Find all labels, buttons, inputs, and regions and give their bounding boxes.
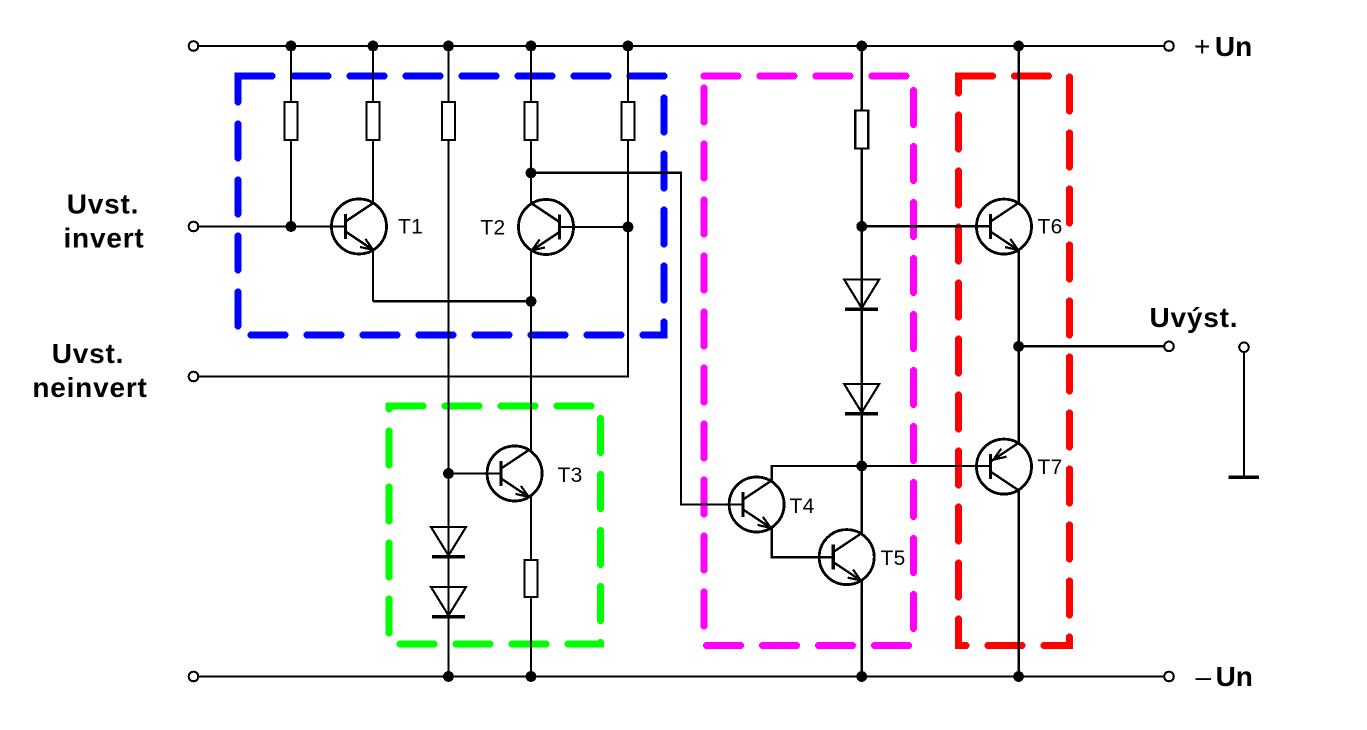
- junction: D3 anode / T6 base: [856, 221, 867, 232]
- wire: inverting input to T1 base: [198, 225, 345, 227]
- svg-text:Uvýst.: Uvýst.: [1150, 302, 1239, 333]
- resistor R2: [367, 102, 380, 140]
- junction: differential pair tail node: [526, 296, 537, 307]
- terminal: -Un right: [1164, 672, 1174, 682]
- terminal: +Un right: [1164, 41, 1174, 51]
- wire: output node to Uvyst terminal: [1019, 345, 1165, 347]
- transistor T3: [487, 446, 542, 501]
- transistor T6: [977, 199, 1032, 254]
- terminal: inverting input: [189, 222, 199, 232]
- wire: reference probe lead: [1243, 352, 1245, 476]
- terminal: -Un left: [189, 672, 199, 682]
- wire: column R1 from +Un rail to inverting input line: [290, 46, 292, 227]
- ground bar: [1229, 475, 1260, 479]
- resistor R1: [285, 102, 298, 140]
- wire: T1 emitter to tail node: [373, 300, 531, 302]
- resistor R3: [442, 102, 455, 140]
- svg-text:T2: T2: [480, 217, 505, 240]
- junction: D4 cathode / T4 collector / T7 base: [856, 461, 867, 472]
- wire: T4 emitter down and right to T5 base: [772, 529, 834, 558]
- resistor R7 (T3 emitter): [525, 560, 538, 597]
- junction on +Un rail at column 6: [856, 41, 867, 52]
- resistor R5: [622, 102, 635, 140]
- junction on -Un rail: [526, 671, 537, 682]
- svg-text:T1: T1: [398, 216, 423, 239]
- resistor R4: [525, 102, 538, 140]
- junction: T2 collector node: [526, 168, 537, 179]
- green dashed box: current source stage (T3): [389, 406, 601, 644]
- wire: T3 base lead: [449, 472, 502, 474]
- svg-text:T7: T7: [1038, 456, 1063, 479]
- wire: -Un bottom supply rail: [198, 675, 1164, 677]
- wire: non-inverting input to column R5: [198, 375, 629, 377]
- terminal: reference probe: [1239, 342, 1249, 352]
- wire: T2 base lead to column R5: [560, 226, 629, 228]
- transistor T4: [729, 477, 784, 532]
- transistor T5: [819, 530, 874, 585]
- junction on +Un rail at column 2: [368, 41, 379, 52]
- junction: output node: [1013, 341, 1024, 352]
- red dashed box: output stage (T6, T7): [959, 76, 1070, 646]
- junction on +Un rail at column 7: [1013, 41, 1024, 52]
- wire: +Un top supply rail: [198, 45, 1164, 47]
- wire: column R4 / T2 / T3 / R7: [530, 46, 532, 677]
- wire: T1 base lead: [280, 225, 346, 227]
- diode D1: [431, 527, 466, 556]
- terminal: Uvyst output: [1164, 342, 1174, 352]
- wire: column R2 / T1 collector-emitter: [372, 46, 374, 301]
- junction: T3 base / D1 anode: [443, 468, 454, 479]
- svg-text:+Un: +Un: [1194, 31, 1252, 62]
- junction on -Un rail: [443, 671, 454, 682]
- terminal: +Un left: [189, 41, 199, 51]
- diode D4: [844, 384, 879, 413]
- diode D3: [844, 280, 879, 309]
- wire: column R6 / D3,D4 / T5: [861, 46, 863, 677]
- junction on -Un rail: [1013, 671, 1024, 682]
- wire: T6 base lead: [950, 225, 991, 227]
- junction on +Un rail at column 4: [526, 41, 537, 52]
- svg-text:T3: T3: [558, 464, 583, 487]
- transistor T1: [332, 199, 387, 254]
- svg-text:Uvst.: Uvst.: [67, 189, 139, 220]
- svg-text:T4: T4: [790, 495, 815, 518]
- wire: T7 base lead: [950, 465, 991, 467]
- junction: T2 base / R5: [623, 222, 634, 233]
- wire: T2 collector node to T4 base: [531, 173, 743, 505]
- wire: D3 cathode node to T6 base: [862, 225, 991, 227]
- wire: column R3 through D1,D2 to -Un rail: [447, 46, 449, 677]
- junction on +Un rail at column 3: [443, 41, 454, 52]
- wire: T4 collector up and right to T7 base: [772, 466, 991, 481]
- wire: column R5 to T2 base and neinvert corner: [627, 46, 629, 377]
- diode D2: [431, 587, 466, 616]
- svg-text:Uvst.: Uvst.: [52, 338, 124, 369]
- wire: output column T6/T7: [1017, 46, 1019, 677]
- transistor T7 (PNP): [977, 439, 1032, 494]
- transistor T2 (mirrored): [519, 200, 574, 255]
- wire: T4 base lead: [715, 503, 743, 505]
- resistor R6: [855, 111, 868, 149]
- svg-text:–Un: –Un: [1196, 661, 1253, 692]
- magenta dashed box: voltage amplifier stage (T4, T5): [704, 76, 914, 646]
- svg-text:T5: T5: [881, 547, 906, 570]
- junction on -Un rail: [856, 671, 867, 682]
- blue dashed box: input differential stage (T1, T2): [238, 76, 664, 335]
- svg-text:invert: invert: [63, 222, 144, 253]
- junction on +Un rail at column 5: [623, 41, 634, 52]
- svg-text:T6: T6: [1038, 216, 1063, 239]
- terminal: non-inverting input: [189, 372, 199, 382]
- junction: R1 to inverting input: [286, 221, 297, 232]
- junction on +Un rail at column 1: [286, 41, 297, 52]
- svg-text:neinvert: neinvert: [32, 372, 147, 403]
- wire: T5 base lead: [800, 556, 833, 558]
